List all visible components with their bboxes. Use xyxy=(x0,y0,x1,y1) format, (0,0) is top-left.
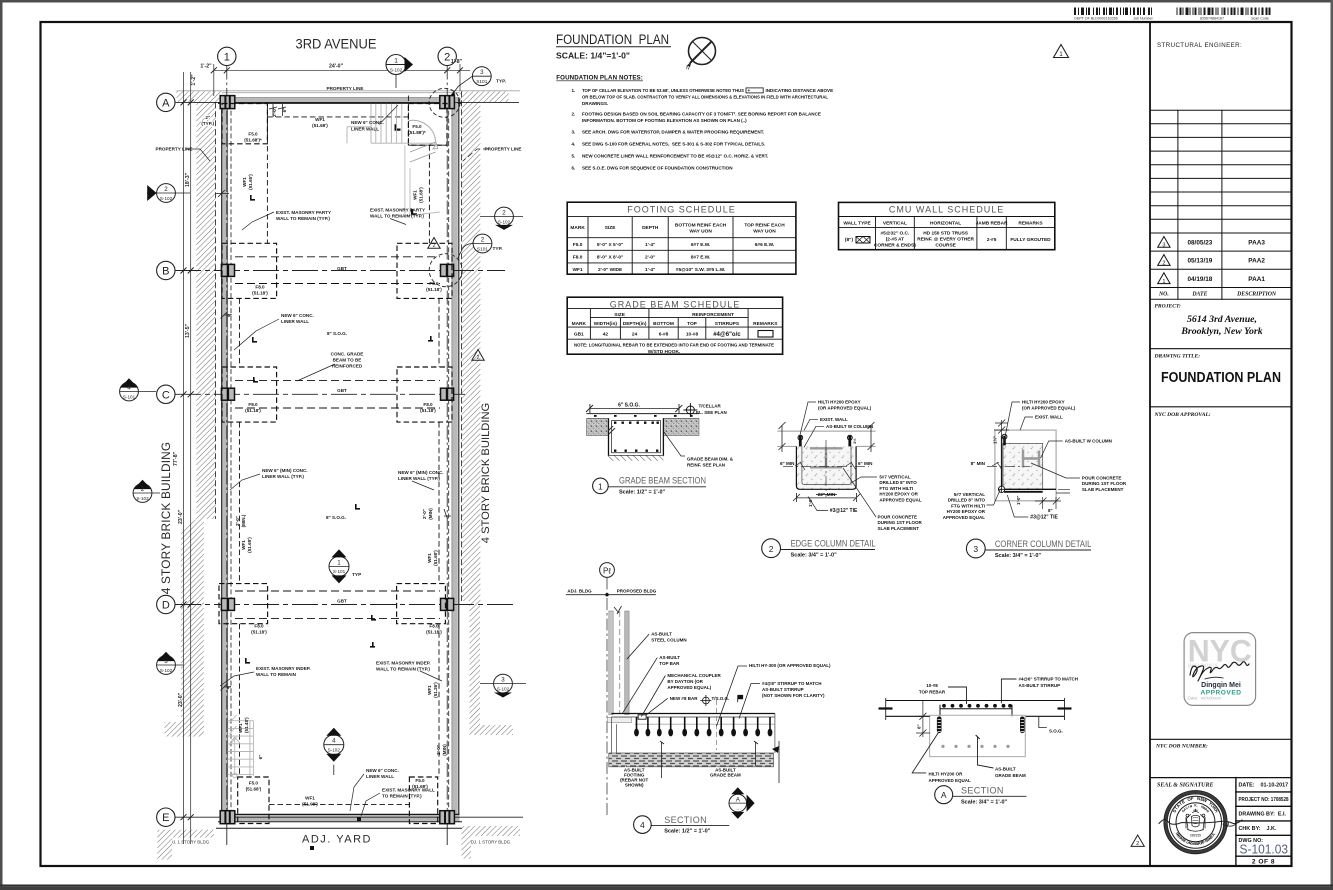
svg-text:HY200 EPOXY OR: HY200 EPOXY OR xyxy=(947,509,986,514)
svg-text:SHOWN): SHOWN) xyxy=(625,783,644,788)
liner wall dashed top bay xyxy=(267,116,408,118)
svg-text:#4@8" STIRRUP TO MATCH: #4@8" STIRRUP TO MATCH xyxy=(762,681,822,686)
stair top right xyxy=(347,104,440,216)
leader new conc liner wall B xyxy=(234,319,279,350)
svg-text:23'-0": 23'-0" xyxy=(178,692,184,707)
title section A xyxy=(935,786,1027,806)
svg-text:1'-0": 1'-0" xyxy=(808,498,813,507)
svg-text:N: N xyxy=(686,66,690,72)
svg-text:F8.0: F8.0 xyxy=(423,402,433,407)
svg-text:2'-0": 2'-0" xyxy=(422,509,427,519)
property line gray top xyxy=(177,91,521,93)
svg-text:EXIST. MASONRY INDEP.: EXIST. MASONRY INDEP. xyxy=(256,666,311,671)
beam top bar and dots xyxy=(940,708,1012,710)
column block E1 xyxy=(220,811,235,824)
svg-text:DATE: DATE xyxy=(1191,292,1207,298)
svg-text:AS-BUILT W COLUMN: AS-BUILT W COLUMN xyxy=(1065,439,1112,444)
revision row PAA2 xyxy=(1158,255,1266,267)
svg-text:NYC DOB NUMBER:: NYC DOB NUMBER: xyxy=(1155,744,1208,750)
grid line 2 vertical xyxy=(446,66,448,846)
svg-text:1½: 1½ xyxy=(852,438,857,444)
svg-text:6.: 6. xyxy=(572,166,576,171)
svg-text:REINF. @ EVERY OTHER: REINF. @ EVERY OTHER xyxy=(917,237,974,243)
svg-text:(51.18'): (51.18') xyxy=(426,630,442,635)
svg-text:(51.18'): (51.18') xyxy=(252,291,268,296)
svg-text:2: 2 xyxy=(1162,261,1165,267)
svg-text:1: 1 xyxy=(1059,51,1063,58)
leader new conc liner wall top xyxy=(379,105,398,125)
svg-text:Dingqin Mei: Dingqin Mei xyxy=(1201,682,1241,689)
svg-text:(51.18'): (51.18') xyxy=(245,408,261,413)
svg-text:2'-0": 2'-0" xyxy=(436,745,441,755)
svg-text:3: 3 xyxy=(164,658,168,665)
DETAILS xyxy=(566,400,1144,848)
svg-text:DRAWINGS.: DRAWINGS. xyxy=(582,101,608,106)
svg-text:8'-0" X 8'-0": 8'-0" X 8'-0" xyxy=(597,255,624,261)
warning triangle 2 mid right xyxy=(428,238,440,250)
svg-text:SLAB PLACEMENT: SLAB PLACEMENT xyxy=(1082,487,1124,492)
grid bubble 1 xyxy=(218,47,236,65)
grade beam dashed pair D xyxy=(235,591,440,619)
svg-text:WF1: WF1 xyxy=(238,723,243,733)
footing F5.0 E2 dashed xyxy=(409,777,437,824)
svg-text:3.: 3. xyxy=(572,130,576,135)
grid bubble E xyxy=(157,808,175,826)
top labels xyxy=(1022,400,1076,420)
svg-text:TOP BAR: TOP BAR xyxy=(659,661,680,666)
column block B1 xyxy=(221,264,234,276)
top wall grid A xyxy=(218,98,462,104)
bottom wall grid E xyxy=(216,814,462,828)
column block D2 xyxy=(441,598,454,610)
grid line D horizontal xyxy=(175,604,515,606)
svg-text:F8.0: F8.0 xyxy=(429,281,439,286)
svg-text:1'-4": 1'-4" xyxy=(645,242,655,248)
svg-text:PROPOSED BLDG: PROPOSED BLDG xyxy=(617,588,657,593)
svg-text:(51.26'): (51.26') xyxy=(433,682,438,698)
leader new liner C right xyxy=(412,481,434,490)
svg-text:GBT: GBT xyxy=(337,266,347,271)
adjacent building hatch right upper xyxy=(462,102,481,168)
adjacent building hatch right bottom return xyxy=(470,725,514,735)
svg-text:S101: S101 xyxy=(476,79,488,85)
svg-text:3: 3 xyxy=(1162,243,1165,249)
svg-text:LINER WALL: LINER WALL xyxy=(366,774,394,779)
svg-text:ADJ. 1 STORY BLDG: ADJ. 1 STORY BLDG xyxy=(167,840,210,845)
svg-text:..: .. xyxy=(736,805,739,811)
svg-text:PAA2: PAA2 xyxy=(1248,258,1265,265)
column block C1 xyxy=(221,388,234,400)
svg-text:(8"): (8") xyxy=(845,237,854,243)
svg-text:PROJECT:: PROJECT: xyxy=(1155,304,1181,310)
svg-text:POUR CONCRETE: POUR CONCRETE xyxy=(1082,476,1122,481)
svg-text:MARK: MARK xyxy=(572,321,587,327)
svg-text:2: 2 xyxy=(444,51,450,63)
svg-text:HORIZONTAL: HORIZONTAL xyxy=(930,221,961,227)
labels left xyxy=(651,632,831,701)
column base plate xyxy=(608,718,632,723)
svg-text:SCALE: 1/4"=1'-0": SCALE: 1/4"=1'-0" xyxy=(556,51,630,61)
warning triangle 2 near titleblock xyxy=(1131,835,1144,847)
svg-text:AS-BUILT STIRRUP: AS-BUILT STIRRUP xyxy=(1019,683,1061,688)
svg-text:GBT: GBT xyxy=(337,599,347,604)
svg-text:6#6 E.W.: 6#6 E.W. xyxy=(755,242,774,248)
sidewalk hatch band top right xyxy=(460,91,509,102)
svg-text:F8.0: F8.0 xyxy=(573,255,583,261)
svg-text:COURSE: COURSE xyxy=(935,243,956,249)
section marker 2/S-102 right xyxy=(480,207,523,230)
svg-text:Date: xx/xx/xxxx: Date: xx/xx/xxxx xyxy=(1188,696,1223,701)
nyc dob number section xyxy=(1150,739,1292,777)
left party wall xyxy=(222,98,231,822)
svg-text:6": 6" xyxy=(227,685,232,690)
svg-text:WALL TO REMAIN (TYP.): WALL TO REMAIN (TYP.) xyxy=(370,214,424,219)
svg-text:GRADE BEAM DIM. &: GRADE BEAM DIM. & xyxy=(687,457,734,462)
hook stirrups black xyxy=(937,717,1025,734)
svg-text:1'-8": 1'-8" xyxy=(451,59,463,65)
svg-text:NEW 6" (MIN) CONC.: NEW 6" (MIN) CONC. xyxy=(262,468,308,473)
plan text labels xyxy=(156,107,522,806)
PE seal xyxy=(1159,791,1242,854)
svg-text:1: 1 xyxy=(598,481,603,491)
svg-text:APPROVED EQUAL): APPROVED EQUAL) xyxy=(667,685,711,690)
svg-text:(51.68'): (51.68') xyxy=(247,537,252,553)
dimension chain vertical outer xyxy=(184,72,191,844)
svg-text:ADJ. BLDG: ADJ. BLDG xyxy=(567,588,592,593)
svg-text:4 STORY BRICK BUILDING: 4 STORY BRICK BUILDING xyxy=(480,403,492,544)
svg-text:2-#5: 2-#5 xyxy=(987,237,997,243)
svg-text:WF1: WF1 xyxy=(427,553,432,563)
small dimension ticks inside plan xyxy=(215,104,451,691)
svg-text:F5.0: F5.0 xyxy=(573,242,583,248)
svg-text:TOP OF CELLAR ELEVATION TO BE: TOP OF CELLAR ELEVATION TO BE 53.68', UN… xyxy=(582,88,744,93)
footing F8.0 B2 dashed xyxy=(397,243,452,298)
svg-text:AS-BUILT STIRRUP: AS-BUILT STIRRUP xyxy=(762,687,804,692)
dimension ticks left xyxy=(181,99,194,820)
svg-text:PROPERTY LINE: PROPERTY LINE xyxy=(327,86,364,91)
svg-text:HILTI HY200 OR: HILTI HY200 OR xyxy=(929,772,964,777)
svg-text:2: 2 xyxy=(769,544,774,554)
bottom right dims xyxy=(1035,489,1070,509)
svg-text:6" MIN: 6" MIN xyxy=(780,461,795,466)
svg-text:8": 8" xyxy=(1048,508,1053,513)
leader new conc liner wall bottom xyxy=(350,774,364,811)
svg-text:6" S.O.G.: 6" S.O.G. xyxy=(618,402,640,408)
svg-text:1'-4": 1'-4" xyxy=(645,267,655,273)
svg-text:4.: 4. xyxy=(572,142,576,147)
svg-text:(51.18'): (51.18') xyxy=(251,630,267,635)
svg-text:6": 6" xyxy=(917,724,922,729)
svg-text:HILTI HY-300 (OR APPROVED EQUA: HILTI HY-300 (OR APPROVED EQUAL) xyxy=(749,663,831,668)
liner wall dashed verticals top bay xyxy=(267,96,429,244)
svg-text:ADJ. YARD: ADJ. YARD xyxy=(302,834,372,846)
grid line B horizontal xyxy=(175,270,505,272)
svg-text:42: 42 xyxy=(603,332,609,338)
svg-text:2: 2 xyxy=(433,243,436,249)
svg-text:(51.88')*: (51.88')* xyxy=(408,130,426,135)
svg-text:NEW CONCRETE LINER WALL REINFO: NEW CONCRETE LINER WALL REINFORCEMENT TO… xyxy=(582,154,768,159)
svg-text:STIRRUPS: STIRRUPS xyxy=(715,321,740,327)
svg-text:(51.18'): (51.18') xyxy=(426,287,442,292)
footing F8.0 D1 dashed xyxy=(219,584,268,624)
svg-text:FOUNDATION PLAN: FOUNDATION PLAN xyxy=(556,32,669,47)
svg-text:F8.0: F8.0 xyxy=(248,402,258,407)
svg-text:S-102: S-102 xyxy=(390,68,403,73)
svg-text:18'-3": 18'-3" xyxy=(185,172,191,187)
svg-text:REMARKS: REMARKS xyxy=(1018,221,1043,227)
revision header row xyxy=(1158,292,1277,298)
svg-text:AS-BUILT: AS-BUILT xyxy=(995,767,1016,772)
PLAN AREA xyxy=(120,37,526,860)
svg-text:S-102: S-102 xyxy=(160,196,173,201)
svg-text:DRAWING BY: E.I.: DRAWING BY: E.I. xyxy=(1239,812,1287,818)
svg-text:Scale: 1/2" = 1'-0": Scale: 1/2" = 1'-0" xyxy=(619,490,666,496)
svg-text:#3@12" TIE: #3@12" TIE xyxy=(830,508,858,514)
svg-text:TYP: TYP xyxy=(352,572,362,578)
svg-text:EXIST. MASONRY WALL: EXIST. MASONRY WALL xyxy=(382,788,435,793)
top labels xyxy=(818,400,873,429)
column footing sides xyxy=(611,714,775,754)
svg-text:AS-BUILT W COLUMN: AS-BUILT W COLUMN xyxy=(826,424,873,429)
t/cellar level mark xyxy=(683,403,726,417)
drawing title FOUNDATION PLAN xyxy=(556,32,671,61)
svg-text:GBT: GBT xyxy=(337,388,347,393)
title corner column detail xyxy=(966,539,1091,559)
detail 4 section xyxy=(566,563,831,835)
revision row PAA3 xyxy=(1158,237,1266,249)
svg-text:BEAM TO BE: BEAM TO BE xyxy=(333,358,362,363)
soil hatch right xyxy=(663,418,699,435)
t/sog level xyxy=(703,697,710,704)
grade beam dashed pair B xyxy=(235,257,440,284)
left 6in dim xyxy=(922,701,924,738)
grid line C horizontal xyxy=(175,393,465,395)
svg-text:(OR APPROVED EQUAL): (OR APPROVED EQUAL) xyxy=(1022,406,1076,411)
revision table grid xyxy=(1150,110,1292,299)
svg-text:8" S.O.G.: 8" S.O.G. xyxy=(326,515,346,520)
dim line 6 sog xyxy=(590,408,679,410)
svg-text:1.: 1. xyxy=(572,88,576,93)
svg-text:HY200 EPOXY OR: HY200 EPOXY OR xyxy=(879,492,918,497)
svg-text:Scale: 3/4" = 1'-0": Scale: 3/4" = 1'-0" xyxy=(961,799,1008,805)
svg-text:1'-2": 1'-2" xyxy=(191,74,197,86)
svg-text:6": 6" xyxy=(227,313,232,318)
hy300 centerline xyxy=(716,700,718,750)
section marker 3/S-102 right xyxy=(480,674,526,697)
detail callout 2/S101 right xyxy=(458,234,503,257)
svg-text:SLAB PLACEMENT: SLAB PLACEMENT xyxy=(878,526,920,531)
svg-text:4: 4 xyxy=(332,738,336,745)
svg-text:DURING 1ST FLOOR: DURING 1ST FLOOR xyxy=(1082,481,1127,486)
svg-text:08/05/23: 08/05/23 xyxy=(1187,240,1212,247)
svg-text:PROJECT NO: 1708528: PROJECT NO: 1708528 xyxy=(1239,797,1289,803)
svg-text:8" MIN: 8" MIN xyxy=(971,461,986,466)
svg-text:LINER WALL: LINER WALL xyxy=(281,319,309,324)
leader grade beam dim xyxy=(664,432,685,456)
svg-text:S-102: S-102 xyxy=(160,668,173,673)
svg-text:CMU WALL SCHEDULE: CMU WALL SCHEDULE xyxy=(889,205,1004,215)
svg-text:6": 6" xyxy=(258,755,263,760)
svg-text:SIZE: SIZE xyxy=(605,225,616,231)
beam U section xyxy=(609,418,664,455)
north arrow xyxy=(686,38,716,72)
svg-text:(2-#5 AT: (2-#5 AT xyxy=(886,237,904,243)
as-built grade beam label xyxy=(710,768,741,778)
grid bubble B xyxy=(157,261,175,279)
svg-text:DEPTH: DEPTH xyxy=(642,225,659,231)
svg-text:F5.0: F5.0 xyxy=(248,132,258,137)
svg-text:(51.48'): (51.48') xyxy=(244,717,249,733)
footing F8.0 D2 dashed xyxy=(397,584,446,624)
section marker 2/S-102 left xyxy=(147,184,190,203)
footing F8.0 C2 dashed xyxy=(397,367,452,422)
svg-text:S-102: S-102 xyxy=(498,219,511,224)
svg-text:BOTTOM REINF EACH: BOTTOM REINF EACH xyxy=(675,222,727,228)
svg-text:NYC DOB APPROVAL:: NYC DOB APPROVAL: xyxy=(1154,412,1211,418)
column block A2 xyxy=(440,96,455,109)
svg-text:PAA1: PAA1 xyxy=(1248,276,1265,283)
svg-text:GRADE BEAM SECTION: GRADE BEAM SECTION xyxy=(619,476,706,486)
adjacent building hatch left lower xyxy=(181,519,204,730)
W column gray xyxy=(1023,450,1039,468)
svg-text:REMARKS: REMARKS xyxy=(753,321,778,327)
svg-text:6-#8: 6-#8 xyxy=(659,332,669,338)
title grade beam section xyxy=(593,476,706,496)
adj yard hatch right xyxy=(462,826,521,859)
leader conc grade beam xyxy=(297,364,335,381)
svg-text:EXIST. MASONRY PARTY: EXIST. MASONRY PARTY xyxy=(276,210,331,215)
svg-text:FOOTING SCHEDULE: FOOTING SCHEDULE xyxy=(627,205,736,215)
svg-text:5'-0" X 5'-0": 5'-0" X 5'-0" xyxy=(597,242,624,248)
svg-text:(51.65'): (51.65') xyxy=(248,174,253,190)
svg-text:3: 3 xyxy=(480,69,484,76)
svg-text:CORNER & ENDS): CORNER & ENDS) xyxy=(874,243,916,249)
leader exist masonry party left xyxy=(242,212,274,230)
seal signature xyxy=(1159,819,1242,824)
section marker 1/S-102 top xyxy=(386,55,413,89)
svg-text:4: 4 xyxy=(640,820,645,830)
svg-text:6#7 E.W.: 6#7 E.W. xyxy=(691,242,710,248)
svg-text:NEW #8 BAR: NEW #8 BAR xyxy=(670,696,699,701)
svg-text:PROPERTY LINE: PROPERTY LINE xyxy=(485,147,522,152)
svg-text:DRILLED 8" INTO: DRILLED 8" INTO xyxy=(879,480,917,485)
svg-text:3RD AVENUE: 3RD AVENUE xyxy=(296,37,377,52)
grid bubble D xyxy=(157,595,175,613)
svg-text:STRUCTURAL ENGINEER:: STRUCTURAL ENGINEER: xyxy=(1157,42,1242,49)
svg-text:APPROVED EQUAL: APPROVED EQUAL xyxy=(879,497,922,502)
svg-text:JAMB REBAR: JAMB REBAR xyxy=(976,221,1009,227)
section marker 1/S-101 center xyxy=(329,549,362,583)
svg-text:2: 2 xyxy=(164,186,168,193)
as-built footing hatch xyxy=(609,753,774,767)
svg-text:F8.0: F8.0 xyxy=(255,285,265,290)
svg-text:REINFORCED: REINFORCED xyxy=(332,364,363,369)
svg-text:APPROVED EQUAL: APPROVED EQUAL xyxy=(943,515,986,520)
svg-text:2: 2 xyxy=(141,486,145,493)
svg-text:TOP: TOP xyxy=(687,321,698,327)
svg-text:3: 3 xyxy=(973,544,978,554)
title block left border xyxy=(1149,22,1151,866)
revision row PAA1 xyxy=(1158,273,1266,285)
svg-text:A: A xyxy=(162,97,170,109)
svg-text:F8.0: F8.0 xyxy=(254,624,264,629)
svg-text:S-101: S-101 xyxy=(333,569,346,574)
svg-text:TYP.: TYP. xyxy=(496,79,506,85)
svg-text:TO REMAIN (TYP.): TO REMAIN (TYP.) xyxy=(382,794,422,799)
grade beam schedule table xyxy=(567,297,782,355)
svg-text:SEE S.O.E. DWG FOR SEQUENCE OF: SEE S.O.E. DWG FOR SEQUENCE OF FOUNDATIO… xyxy=(582,166,732,171)
leader exist masonry party right xyxy=(390,219,406,225)
svg-text:13'-5": 13'-5" xyxy=(185,323,191,338)
svg-text:2'-0" WIDE: 2'-0" WIDE xyxy=(598,267,623,273)
svg-text:3: 3 xyxy=(501,677,505,684)
wall footing dashed pair E xyxy=(269,804,409,806)
footing F5.0 A2 dashed xyxy=(408,104,447,146)
svg-text:2'-0": 2'-0" xyxy=(235,516,240,526)
svg-text:SEE DWG S-100 FOR GENERAL NOTE: SEE DWG S-100 FOR GENERAL NOTES, SEE S-3… xyxy=(582,142,765,147)
svg-text:AS-BUILT: AS-BUILT xyxy=(651,632,672,637)
center lines xyxy=(783,465,869,467)
section marker 2/S-102 left lower xyxy=(133,480,160,503)
footing F5.0 A1 dashed xyxy=(222,104,267,144)
svg-text:5.: 5. xyxy=(572,154,576,159)
adj yard hatch left xyxy=(157,830,214,860)
svg-text:WAY UON: WAY UON xyxy=(689,228,712,234)
svg-text:2: 2 xyxy=(477,355,480,361)
barcode scan code xyxy=(1177,11,1271,20)
bottom dim 22min xyxy=(796,497,856,499)
stirrup hooks xyxy=(634,717,772,736)
svg-text:835674884167: 835674884167 xyxy=(1200,17,1224,21)
svg-text:WF1: WF1 xyxy=(573,267,583,273)
svg-text:C: C xyxy=(162,389,170,401)
detail callout 3/S101 top right xyxy=(451,67,507,96)
svg-text:S-102: S-102 xyxy=(136,496,149,501)
svg-text:LINER WALL: LINER WALL xyxy=(351,127,379,132)
svg-text:DEPT OF BLD0002163266: DEPT OF BLD0002163266 xyxy=(1074,17,1118,21)
section marker 4/S-101 left xyxy=(120,378,156,401)
grid bubble C xyxy=(157,385,175,403)
svg-text:A: A xyxy=(941,790,947,800)
svg-text:05/13/19: 05/13/19 xyxy=(1187,258,1212,265)
svg-text:WF1: WF1 xyxy=(241,540,246,550)
svg-text:Brooklyn, New York: Brooklyn, New York xyxy=(1180,326,1262,337)
svg-text:(OR APPROVED EQUAL): (OR APPROVED EQUAL) xyxy=(818,406,872,411)
svg-text:(51.68'): (51.68') xyxy=(419,187,424,203)
svg-text:POUR CONCRETE: POUR CONCRETE xyxy=(878,515,918,520)
svg-text:DRAWING TITLE:: DRAWING TITLE: xyxy=(1154,354,1201,360)
svg-text:BOTTOM: BOTTOM xyxy=(653,321,674,327)
svg-text:Job Number: Job Number xyxy=(1133,17,1153,21)
svg-text:4: 4 xyxy=(127,385,131,392)
svg-text:WAY UON: WAY UON xyxy=(753,228,776,234)
foundation plan notes xyxy=(556,75,833,171)
svg-text:(51.68'): (51.68') xyxy=(433,550,438,566)
svg-text:1: 1 xyxy=(337,559,341,566)
property line dashes right hatch xyxy=(461,91,463,601)
adjacent building hatch right narrow strip xyxy=(470,601,481,725)
svg-text:DURING 1ST FLOOR: DURING 1ST FLOOR xyxy=(878,520,923,525)
stair bottom left xyxy=(228,715,254,778)
svg-text:Scale: 3/4" = 1'-0": Scale: 3/4" = 1'-0" xyxy=(791,553,838,559)
svg-text:Scale: 1/2" = 1'-0": Scale: 1/2" = 1'-0" xyxy=(664,829,711,835)
svg-text:Scan Code: Scan Code xyxy=(1251,17,1269,21)
svg-text:SIZE: SIZE xyxy=(614,312,625,318)
svg-text:WF1: WF1 xyxy=(305,796,315,801)
svg-text:#5@10" S.W. 3#5 L.W.: #5@10" S.W. 3#5 L.W. xyxy=(676,267,726,273)
leader lines for labels xyxy=(186,105,489,816)
title section 4 xyxy=(634,815,730,835)
